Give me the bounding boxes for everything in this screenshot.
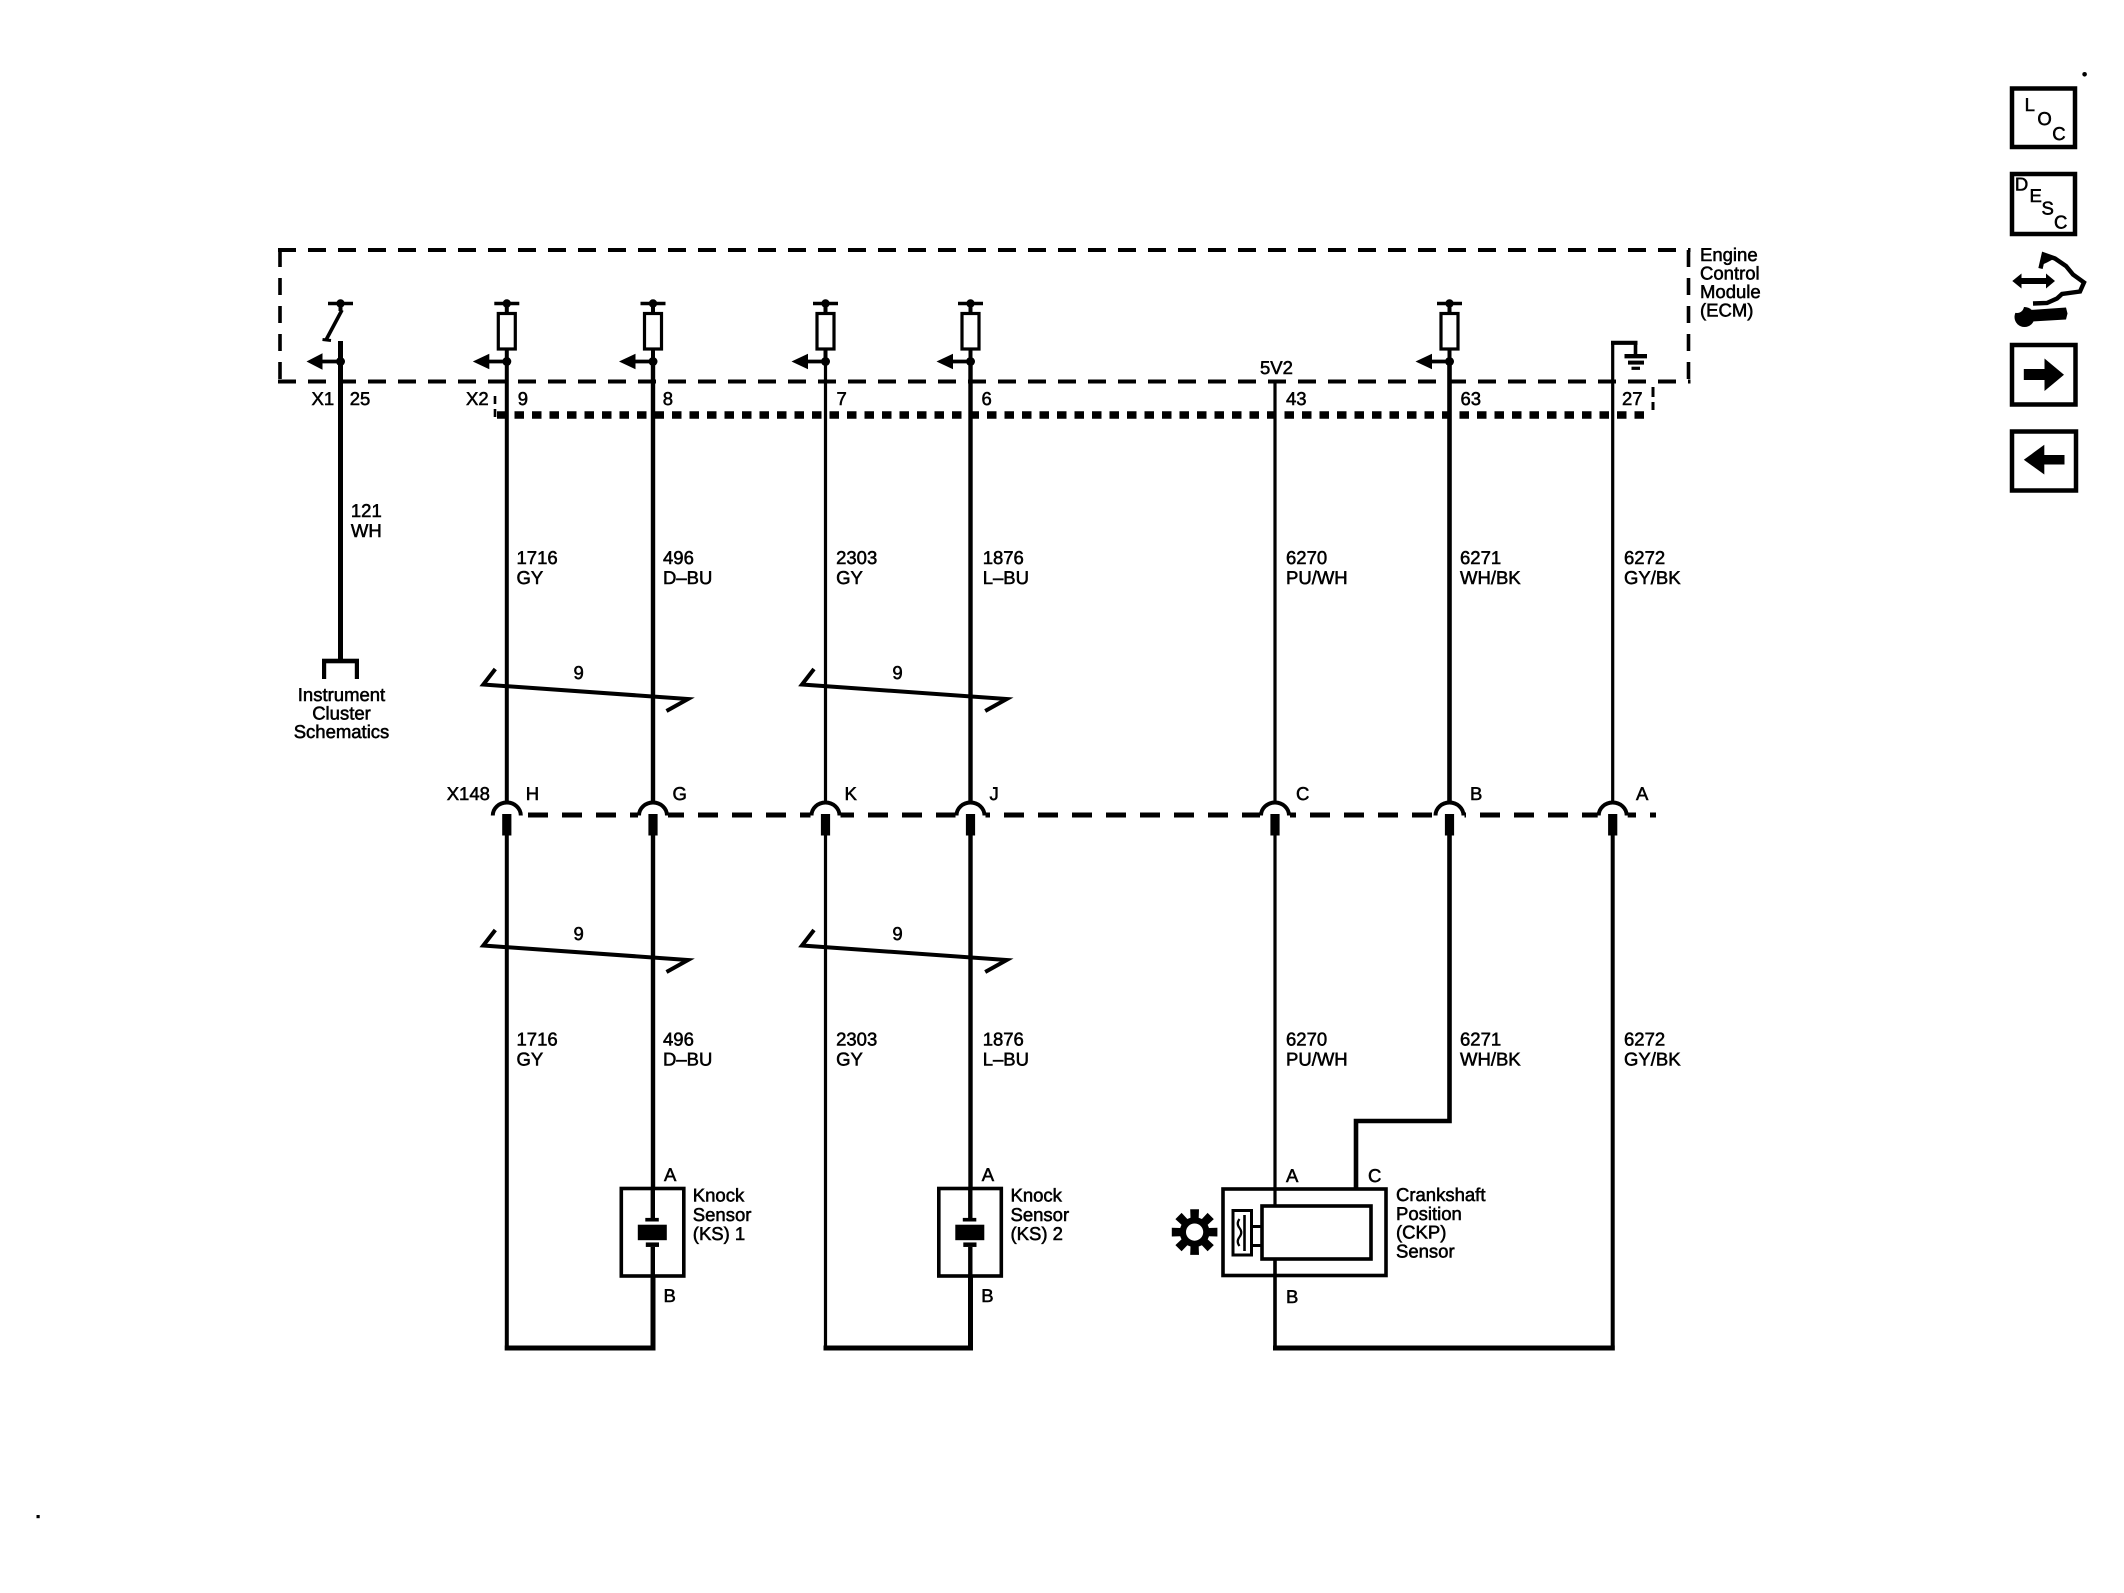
svg-text:1716: 1716 bbox=[517, 547, 558, 568]
svg-text:Knock: Knock bbox=[693, 1185, 745, 1206]
svg-text:D–BU: D–BU bbox=[663, 567, 712, 588]
svg-text:B: B bbox=[1286, 1286, 1298, 1307]
svg-text:43: 43 bbox=[1286, 388, 1307, 409]
svg-text:9: 9 bbox=[573, 662, 583, 683]
svg-text:WH: WH bbox=[351, 520, 382, 541]
svg-text:C: C bbox=[2052, 123, 2065, 144]
svg-text:C: C bbox=[1368, 1165, 1381, 1186]
svg-text:9: 9 bbox=[892, 923, 902, 944]
svg-text:C: C bbox=[2054, 211, 2067, 232]
svg-text:A: A bbox=[982, 1164, 995, 1185]
svg-text:L–BU: L–BU bbox=[983, 1049, 1029, 1070]
svg-text:B: B bbox=[981, 1285, 993, 1306]
svg-text:1876: 1876 bbox=[983, 547, 1024, 568]
svg-text:6: 6 bbox=[982, 388, 992, 409]
svg-text:9: 9 bbox=[518, 388, 528, 409]
svg-text:7: 7 bbox=[837, 388, 847, 409]
svg-text:121: 121 bbox=[351, 500, 382, 521]
svg-text:Crankshaft: Crankshaft bbox=[1396, 1184, 1485, 1205]
svg-text:Sensor: Sensor bbox=[1011, 1204, 1070, 1225]
svg-text:GY: GY bbox=[517, 1049, 544, 1070]
svg-text:PU/WH: PU/WH bbox=[1286, 1049, 1348, 1070]
svg-text:GY/BK: GY/BK bbox=[1624, 567, 1681, 588]
svg-text:6270: 6270 bbox=[1286, 547, 1327, 568]
svg-text:WH/BK: WH/BK bbox=[1460, 567, 1521, 588]
svg-text:1876: 1876 bbox=[983, 1029, 1024, 1050]
svg-text:GY: GY bbox=[836, 567, 863, 588]
svg-text:GY: GY bbox=[517, 567, 544, 588]
svg-text:5V2: 5V2 bbox=[1260, 357, 1293, 378]
svg-text:A: A bbox=[1286, 1165, 1299, 1186]
svg-text:9: 9 bbox=[573, 923, 583, 944]
svg-text:B: B bbox=[1470, 783, 1482, 804]
svg-text:E: E bbox=[2030, 185, 2042, 206]
svg-text:WH/BK: WH/BK bbox=[1460, 1049, 1521, 1070]
svg-text:9: 9 bbox=[892, 662, 902, 683]
svg-text:O: O bbox=[2037, 108, 2051, 129]
svg-text:A: A bbox=[1636, 783, 1649, 804]
svg-text:D: D bbox=[2015, 174, 2028, 195]
svg-text:Schematics: Schematics bbox=[294, 721, 390, 742]
svg-text:25: 25 bbox=[350, 388, 371, 409]
svg-text:D–BU: D–BU bbox=[663, 1049, 712, 1070]
svg-text:Knock: Knock bbox=[1011, 1185, 1063, 1206]
svg-text:J: J bbox=[990, 783, 999, 804]
svg-text:K: K bbox=[845, 783, 858, 804]
svg-text:Sensor: Sensor bbox=[1396, 1241, 1455, 1262]
svg-text:Sensor: Sensor bbox=[693, 1204, 752, 1225]
svg-text:6272: 6272 bbox=[1624, 1029, 1665, 1050]
svg-text:L–BU: L–BU bbox=[983, 567, 1029, 588]
svg-text:(ECM): (ECM) bbox=[1700, 300, 1753, 321]
svg-text:6271: 6271 bbox=[1460, 547, 1501, 568]
svg-text:6271: 6271 bbox=[1460, 1029, 1501, 1050]
svg-text:27: 27 bbox=[1622, 388, 1643, 409]
svg-text:496: 496 bbox=[663, 547, 694, 568]
svg-text:X148: X148 bbox=[447, 783, 490, 804]
svg-text:6270: 6270 bbox=[1286, 1029, 1327, 1050]
svg-text:A: A bbox=[664, 1164, 677, 1185]
svg-text:G: G bbox=[673, 783, 687, 804]
svg-text:2303: 2303 bbox=[836, 547, 877, 568]
svg-text:L: L bbox=[2025, 94, 2035, 115]
svg-text:2303: 2303 bbox=[836, 1029, 877, 1050]
svg-text:496: 496 bbox=[663, 1029, 694, 1050]
svg-text:GY/BK: GY/BK bbox=[1624, 1049, 1681, 1070]
svg-text:S: S bbox=[2042, 198, 2054, 219]
svg-text:1716: 1716 bbox=[517, 1029, 558, 1050]
svg-text:6272: 6272 bbox=[1624, 547, 1665, 568]
svg-text:B: B bbox=[664, 1285, 676, 1306]
svg-text:GY: GY bbox=[836, 1049, 863, 1070]
svg-text:X2: X2 bbox=[466, 388, 489, 409]
svg-text:PU/WH: PU/WH bbox=[1286, 567, 1348, 588]
svg-text:8: 8 bbox=[663, 388, 673, 409]
svg-text:63: 63 bbox=[1461, 388, 1482, 409]
svg-text:(KS) 2: (KS) 2 bbox=[1011, 1223, 1063, 1244]
svg-text:H: H bbox=[526, 783, 539, 804]
svg-text:X1: X1 bbox=[312, 388, 335, 409]
svg-text:(KS) 1: (KS) 1 bbox=[693, 1223, 745, 1244]
svg-text:C: C bbox=[1296, 783, 1309, 804]
